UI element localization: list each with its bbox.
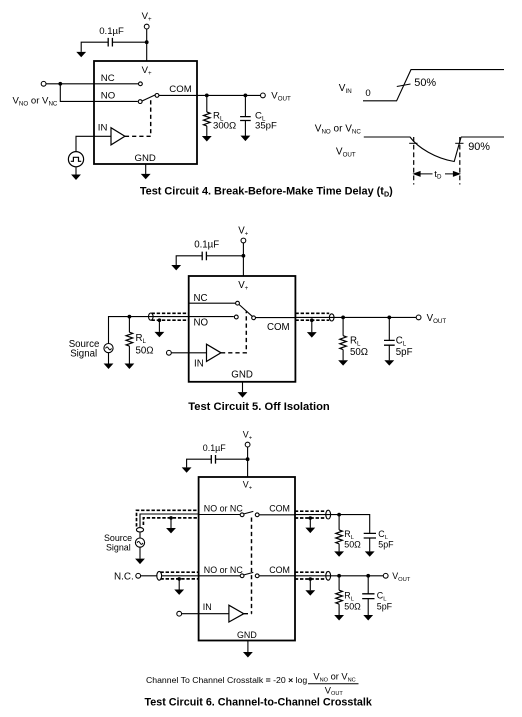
VOUT terminal [416,315,421,320]
wire NC stub [189,302,236,304]
VOUT terminal ch2 [383,573,388,578]
wire capacitor to ground [81,42,108,52]
wire shield ground ch1 right [309,518,311,528]
svg-text:GND: GND [231,369,253,380]
svg-text:VOUT: VOUT [392,571,411,583]
capacitor 0.1uF (circuit 5) [202,252,206,261]
node RL tap right [341,316,345,320]
sine source (circuit 5) [104,344,113,353]
svg-text:IN: IN [203,602,212,612]
svg-text:VNO or VNC: VNO or VNC [313,672,355,684]
svg-text:Source: Source [104,533,132,543]
svg-text:50Ω: 50Ω [350,347,368,358]
svg-text:GND: GND [135,153,156,164]
coax ch2 left shield [160,572,198,579]
wire CL ch1 bottom [369,538,371,551]
wire node to capacitor [113,41,147,43]
node CL tap ch2 [366,574,370,578]
ground (GND, circuit 6) [244,653,252,657]
pole contact ch1 [255,513,259,517]
svg-text:Signal: Signal [70,349,97,360]
wire CL ch2 bottom [367,599,369,616]
svg-text:35pF: 35pF [255,121,277,132]
svg-text:VNO or VNC: VNO or VNC [315,123,362,135]
VOUT terminal [261,93,266,98]
svg-text:V+: V+ [238,280,248,292]
svg-text:Test Circuit 5. Off Isolation: Test Circuit 5. Off Isolation [188,401,330,413]
wire node to cap [216,458,248,460]
svg-text:V+: V+ [238,226,248,238]
capacitor CL 5pF ch2 [362,594,374,599]
coax ch1 right ellipse [326,510,331,519]
svg-text:VOUT: VOUT [271,91,291,103]
ground (CL ch2) [364,616,372,620]
ground (right shield, circuit 5) [308,333,316,337]
coax ch1 end ellipse [136,528,143,532]
ground (RL ch2) [335,616,343,620]
coax ch2 right ellipse [326,571,331,580]
NO contact [138,100,142,104]
wire CL top [244,95,246,116]
wire ch2 into box [162,575,241,577]
node CL tap [244,94,248,98]
svg-text:300Ω: 300Ω [213,121,236,132]
svg-text:CL: CL [396,336,407,348]
coax ch1 left: outer shield [137,510,199,526]
ground (source, circuit 6) [136,559,144,563]
ground (GND pin, circuit 4) [142,174,150,178]
svg-text:0: 0 [365,88,370,99]
coax end ellipse right [329,314,334,321]
node shield ground ch1 right [309,516,313,520]
coax shield right (circuit 5) [295,313,329,320]
svg-text:V+: V+ [142,11,152,23]
V+ terminal [245,442,250,447]
wire RL ch1 bottom [338,544,340,552]
svg-text:NC: NC [101,73,115,84]
wire RL right top [342,317,344,335]
V+ terminal [144,24,149,29]
node: V+ / bypass cap junction [145,40,149,44]
buffer driver (circuit 5) [207,344,222,361]
NO contact [234,315,238,319]
resistor RL 50 (left) [126,332,133,346]
svg-text:5pF: 5pF [378,540,394,550]
ground (ch2 shield right) [306,591,314,595]
wire COM to box edge [256,317,295,319]
right dashed marker [459,137,461,185]
svg-text:NO: NO [101,91,115,102]
node RL tap [205,94,209,98]
wire RL right bottom [342,350,344,361]
wire V+ down [247,447,249,477]
svg-text:N.C.: N.C. [114,572,134,583]
svg-text:NO: NO [194,317,209,328]
wire COM out [159,94,261,96]
wire CL right top [388,317,390,340]
wire NC terminal to NC contact [46,83,138,85]
resistor RL 50 ch2 [336,590,343,604]
ground (source, circuit 5) [105,364,113,368]
svg-text:5pF: 5pF [396,347,413,358]
svg-text:NC: NC [194,293,208,304]
wire shield ground ch2 right [309,579,311,590]
wire shield ground ch2 [178,579,180,590]
node shield ground ch1 [169,516,173,520]
tD arrow left [414,172,433,177]
buffer driver (circuit 6) [229,605,244,622]
NO contact ch2 [240,574,244,578]
IN terminal [177,611,182,616]
ground (GND, circuit 5) [239,393,247,397]
wire CL bottom [244,121,246,137]
NC terminal [41,81,46,86]
NO contact ch1 [240,513,244,517]
wire IN to buffer [171,352,206,354]
switch lever ch1 [244,511,253,514]
tD arrow right [445,172,460,177]
svg-text:RL: RL [136,333,147,345]
svg-text:IN: IN [98,123,108,134]
IC body U2 [189,276,296,382]
wire cap to ground [176,256,202,265]
left dashed marker [413,137,415,185]
wire COM out to VOUT [295,316,416,318]
svg-text:NO or NC: NO or NC [204,565,244,575]
ground (bypass, circuit 5) [172,265,180,269]
coax shield left (circuit 5) [152,313,189,320]
ground (left RL, circuit 5) [125,364,133,368]
wire COM ch1 out [259,514,295,516]
50% tick [397,84,411,87]
coax end ellipse left [149,313,154,320]
wire RL ch2 top [338,576,340,590]
wire tee down to NO [60,84,138,102]
coax ch1 center conductor [140,514,199,527]
wire CL ch2 top [367,576,369,594]
switch lever ch2 [244,572,253,575]
node CL tap right [387,316,391,320]
ground (ch2 shield left) [175,590,183,594]
IC body U3 [199,477,295,641]
svg-text:IN: IN [194,359,204,370]
VIN waveform trace [363,70,504,101]
pulse glyph [71,157,81,161]
IN terminal [167,350,172,355]
dashed apex link [244,613,252,615]
buffer driver (circuit 4) [111,128,125,145]
wire V+ down to IC [146,29,148,61]
wire IN to buffer [182,613,229,615]
wire GND pin [242,382,244,392]
switch lever (pole to NC) [239,305,252,317]
wire shield ground ch1 [170,518,172,528]
capacitor CL 5pF (circuit 5) [384,340,395,345]
svg-text:VIN: VIN [339,83,352,95]
svg-text:0.1µF: 0.1µF [99,26,124,37]
ground (RL, circuit 4) [203,137,211,141]
ground (right CL, circuit 5) [385,361,393,365]
node RL50 tap (left) [127,315,131,319]
ground (RL ch1) [335,552,343,556]
coax ch1 right shield [295,511,327,518]
wire CL right bottom [388,345,390,360]
ground (right RL, circuit 5) [339,361,347,365]
svg-text:0.1µF: 0.1µF [194,239,219,250]
switch lever (NO to pole) [142,95,155,101]
wire GND pin [145,164,147,174]
NC contact [236,301,240,305]
wire RL bottom [206,126,208,137]
wire cap to ground [187,459,212,467]
dashed actuator link [125,98,151,136]
resistor RL 50 (right) [340,336,347,350]
ground (CL, circuit 4) [242,136,250,140]
resistor RL 50 ch1 [336,530,343,544]
wire NC terminal to coax [141,575,158,577]
svg-text:Channel To Channel Crosstalk =: Channel To Channel Crosstalk = -20 × log [146,675,307,685]
capacitor 0.1uF (circuit 6) [211,455,215,464]
dashed actuator link (vertical) [251,518,253,614]
IC body U1 [94,61,197,164]
wire shield to ground right [311,320,313,332]
svg-text:Test Circuit 4. Break-Before-M: Test Circuit 4. Break-Before-Make Time D… [140,186,393,199]
svg-text:COM: COM [267,322,290,333]
wire V+ down [242,243,244,276]
svg-text:V+: V+ [243,430,253,442]
wire RL50 left bottom [128,346,130,364]
resistor RL 300 [204,112,211,126]
wire source top to coax [139,532,141,538]
wire GND pin [247,641,249,653]
svg-text:GND: GND [237,630,257,640]
90% tick right [455,142,463,144]
svg-text:50Ω: 50Ω [136,345,154,356]
svg-text:50%: 50% [414,77,436,89]
node shield ground [158,318,162,322]
svg-text:COM: COM [269,565,290,575]
wire COM ch2 out [259,575,295,577]
svg-text:VOUT: VOUT [427,313,447,325]
wire source to ground [108,353,110,364]
wire RL top [206,95,208,112]
formula fraction bar [308,683,359,685]
wire IN to pulse source [76,136,111,151]
wire source bottom [139,547,141,559]
wire NO from source [109,317,234,344]
svg-text:90%: 90% [468,141,490,153]
coax ch2 right shield [295,572,327,579]
svg-text:COM: COM [269,504,290,514]
svg-text:RL: RL [350,336,361,348]
svg-text:Signal: Signal [106,543,131,553]
wire ch2 out to VOUT [295,575,384,577]
ground (pulse source) [72,175,80,179]
svg-text:5pF: 5pF [377,601,393,611]
svg-text:50Ω: 50Ω [344,540,361,550]
switch pole contact [252,316,256,320]
switch pole contact [155,94,159,98]
node RL tap ch1 [337,513,341,517]
svg-text:50Ω: 50Ω [344,601,361,611]
wire node to cap [207,255,244,257]
node bypass junction [242,254,246,258]
svg-text:Test Circuit 6. Channel-to-Cha: Test Circuit 6. Channel-to-Channel Cross… [145,697,372,709]
svg-text:V+: V+ [142,65,152,77]
ground (ch1 shield left) [167,528,175,532]
svg-text:COM: COM [169,84,191,95]
node shield ground right [310,318,314,322]
ground (bypass cap, circuit 4) [77,52,85,56]
sine source (circuit 6) [135,538,144,547]
wire RL ch2 bottom [338,604,340,615]
wire pulse source to ground [75,167,77,175]
V+ terminal [241,238,246,243]
svg-text:tD: tD [434,169,442,181]
dashed actuator link [221,312,246,353]
svg-text:VNO or VNC: VNO or VNC [13,96,58,108]
NC contact [139,82,143,86]
capacitor CL 35pF [240,117,251,121]
90% tick left [409,142,417,144]
ground (left shield, circuit 5) [156,332,164,336]
ground (ch1 shield right) [306,528,314,532]
capacitor C bypass 0.1uF [108,38,112,47]
node RL tap ch2 [337,574,341,578]
pulse generator source [68,152,83,167]
pole contact ch2 [255,574,259,578]
svg-text:NO or NC: NO or NC [204,504,244,514]
VOUT waveform trace [364,137,504,162]
ground (CL ch1) [366,552,374,556]
wire ch1 from coax into box [199,514,241,516]
wire RL50 left top [128,317,130,333]
wire RL ch1 top [338,515,340,530]
node shield ground ch2 [177,577,181,581]
node shield ground ch2 right [309,577,313,581]
wire shield to ground [158,320,160,332]
svg-text:VOUT: VOUT [336,146,356,158]
svg-text:V+: V+ [243,479,253,491]
svg-text:VOUT: VOUT [325,685,344,697]
node bypass junction [246,457,250,461]
NC terminal ch2 [136,573,141,578]
wire ch1 out to CL [295,515,370,534]
node: input tee [58,82,62,86]
ground (bypass, circuit 6) [183,468,191,472]
capacitor CL 5pF ch1 [364,533,376,538]
svg-text:0.1µF: 0.1µF [203,443,226,453]
coax ch2 left ellipse [157,571,162,580]
